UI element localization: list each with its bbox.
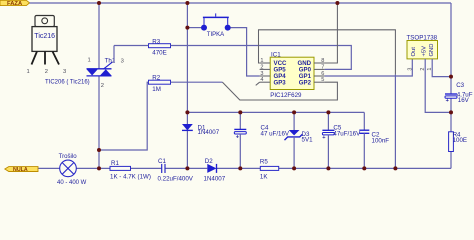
svg-text:R2: R2 bbox=[152, 75, 160, 82]
wire TIPKA right to pin3 GP4 bbox=[231, 28, 260, 76]
capacitor C3 bbox=[445, 82, 473, 104]
svg-text:1K: 1K bbox=[260, 173, 268, 180]
svg-text:5V1: 5V1 bbox=[302, 137, 314, 144]
capacitor C1 bbox=[158, 158, 194, 183]
diode D2 1N4007 bbox=[204, 158, 226, 183]
wire R2 right horizontal bbox=[171, 81, 223, 83]
svg-text:3: 3 bbox=[121, 58, 124, 64]
junction top rail at triac bbox=[97, 1, 101, 5]
wire VCC column lower bbox=[394, 74, 396, 168]
wire TSOP +5V pin2 bbox=[425, 59, 451, 113]
resistor R5 bbox=[260, 159, 279, 181]
svg-text:GP3: GP3 bbox=[274, 79, 287, 86]
junction triac MT at R2 wire bbox=[97, 148, 101, 152]
wire pin4 GP3 stub tail bbox=[256, 82, 260, 85]
capacitor C2 bbox=[359, 112, 389, 168]
svg-text:C1: C1 bbox=[158, 158, 166, 165]
svg-text:1N4007: 1N4007 bbox=[204, 176, 226, 183]
junction bottom rail at triac bbox=[97, 166, 101, 170]
svg-text:1: 1 bbox=[260, 58, 263, 64]
push button S1 TIPKA bbox=[201, 13, 231, 37]
svg-text:2: 2 bbox=[45, 69, 48, 75]
junction TIPKA left bbox=[185, 26, 189, 30]
junction bottom rail at VCC column bbox=[393, 166, 397, 170]
svg-text:NULA: NULA bbox=[13, 167, 28, 173]
svg-text:1K - 4.7K (1W): 1K - 4.7K (1W) bbox=[110, 174, 151, 181]
svg-text:R1: R1 bbox=[111, 160, 119, 167]
wire triac gate vertical bbox=[112, 46, 114, 63]
svg-text:5: 5 bbox=[321, 77, 324, 83]
triac Th1 symbol bbox=[87, 58, 124, 89]
wire R2 left to triac MT bbox=[99, 82, 149, 150]
svg-text:47 uF/16V: 47 uF/16V bbox=[261, 131, 290, 138]
svg-text:1: 1 bbox=[88, 58, 91, 64]
junction bottom rail at D3 bbox=[292, 166, 296, 170]
svg-text:GP2: GP2 bbox=[299, 79, 312, 86]
svg-text:PIC12F629: PIC12F629 bbox=[270, 92, 302, 99]
svg-text:4: 4 bbox=[260, 77, 263, 83]
wire top rail FAZA bbox=[30, 2, 452, 4]
wire R2 diagonal and under-IC route to pin5 GP2 bbox=[223, 82, 338, 100]
svg-text:2: 2 bbox=[260, 64, 263, 70]
junction TSOP +5V at right column bbox=[449, 110, 453, 114]
svg-text:Tic216: Tic216 bbox=[34, 33, 55, 40]
wire TSOP GND pin3 bbox=[432, 59, 451, 77]
IC1 pin numbers right 8 7 6 5 bbox=[321, 58, 324, 83]
svg-text:2: 2 bbox=[101, 83, 104, 89]
resistor R4 bbox=[449, 132, 467, 152]
junction top rail at D1 column bbox=[185, 1, 189, 5]
capacitor C4 bbox=[234, 112, 290, 168]
wire TIPKA left bbox=[187, 27, 201, 29]
svg-text:6: 6 bbox=[321, 71, 324, 77]
wire R3 left to gate bbox=[114, 45, 149, 47]
svg-text:1N4007: 1N4007 bbox=[198, 129, 220, 136]
svg-text:470E: 470E bbox=[152, 50, 166, 57]
resistor R2 bbox=[149, 75, 171, 94]
resistor R1 bbox=[110, 160, 151, 181]
svg-text:16V: 16V bbox=[458, 97, 470, 104]
IC1 pin numbers left 1 2 3 4 bbox=[260, 58, 263, 83]
svg-text:+5V: +5V bbox=[421, 46, 427, 57]
transistor package TO-220 pictorial Tic216 bbox=[27, 16, 90, 86]
svg-text:100E: 100E bbox=[453, 137, 467, 144]
svg-text:IC1: IC1 bbox=[271, 52, 281, 59]
svg-text:1M: 1M bbox=[152, 86, 161, 93]
svg-text:40 - 400 W: 40 - 400 W bbox=[57, 180, 87, 184]
svg-text:R3: R3 bbox=[152, 38, 160, 45]
wire pin8 GND to top rail bbox=[325, 3, 338, 63]
svg-text:0.22uF/400V: 0.22uF/400V bbox=[158, 176, 194, 183]
svg-text:R5: R5 bbox=[260, 159, 268, 166]
svg-text:TIC206 ( Tic216): TIC206 ( Tic216) bbox=[45, 80, 90, 86]
wire right vertical mid (C3 to R4) bbox=[450, 98, 452, 131]
svg-text:47uF/16V: 47uF/16V bbox=[333, 131, 361, 138]
svg-text:GND: GND bbox=[429, 44, 435, 57]
junction bottom rail at C5 bbox=[326, 166, 330, 170]
wire supply node horizontal bbox=[187, 111, 364, 113]
wire R3 right to GP0 pin7 bbox=[171, 46, 352, 70]
svg-text:TIPKA: TIPKA bbox=[207, 32, 224, 38]
IC U1 PIC12F629 bbox=[270, 52, 314, 99]
svg-text:TSOP1738: TSOP1738 bbox=[407, 35, 438, 42]
net NULA flag bbox=[5, 167, 38, 173]
wire vertical D1 column lower bbox=[186, 130, 188, 168]
wire pin6 GP1 to TSOP Out bbox=[325, 59, 413, 76]
IC U2 TSOP1738 bbox=[407, 35, 438, 59]
wire vertical FAZA to D1 column upper bbox=[186, 3, 188, 124]
diode D1 1N4007 bbox=[182, 124, 220, 136]
triac Th1 main vertical wire bottom bbox=[98, 76, 100, 168]
zener diode D3 5V1 bbox=[285, 112, 314, 168]
junction bottom rail at C4 bbox=[238, 166, 242, 170]
junction TSOP GND at right column bbox=[449, 75, 453, 79]
svg-text:7: 7 bbox=[321, 64, 324, 70]
wire bottom rail segments bbox=[38, 167, 451, 169]
junction top rail at pin8 wire bbox=[335, 1, 339, 5]
IC1 pin stubs right bbox=[314, 63, 325, 82]
svg-text:Out: Out bbox=[411, 47, 417, 57]
triac Th1 main vertical wire top bbox=[98, 3, 100, 69]
IC1 pin stubs left bbox=[260, 63, 271, 82]
wire pin1 VCC loop to bottom rail bbox=[259, 30, 396, 75]
wire right vertical upper (rail to C3) bbox=[450, 3, 452, 94]
junction bottom rail at C2 bbox=[362, 166, 366, 170]
resistor R3 bbox=[149, 38, 171, 56]
wire right vertical lower (R4 to bottom rail) bbox=[450, 152, 452, 169]
junction supply at D3 bbox=[292, 110, 296, 114]
svg-text:Trošilo: Trošilo bbox=[59, 153, 78, 160]
svg-text:C3: C3 bbox=[456, 82, 464, 89]
capacitor C5 bbox=[322, 112, 361, 168]
svg-text:D2: D2 bbox=[205, 158, 213, 165]
svg-text:8: 8 bbox=[321, 58, 324, 64]
junction supply at D1 bbox=[185, 110, 189, 114]
junction bottom rail at D1 bbox=[185, 166, 189, 170]
junction supply at C5 bbox=[326, 110, 330, 114]
svg-text:1: 1 bbox=[27, 69, 30, 75]
lamp LA1 Trosilo bbox=[57, 153, 87, 186]
junction supply at C4 bbox=[238, 110, 242, 114]
net FAZA flag bbox=[0, 0, 30, 7]
svg-text:3: 3 bbox=[407, 68, 413, 71]
TSOP pin numbers 1 2 3 bbox=[407, 68, 433, 71]
svg-text:3: 3 bbox=[63, 69, 66, 75]
svg-text:FAZA: FAZA bbox=[7, 1, 23, 7]
svg-text:3: 3 bbox=[260, 71, 263, 77]
svg-text:100nF: 100nF bbox=[372, 138, 390, 145]
